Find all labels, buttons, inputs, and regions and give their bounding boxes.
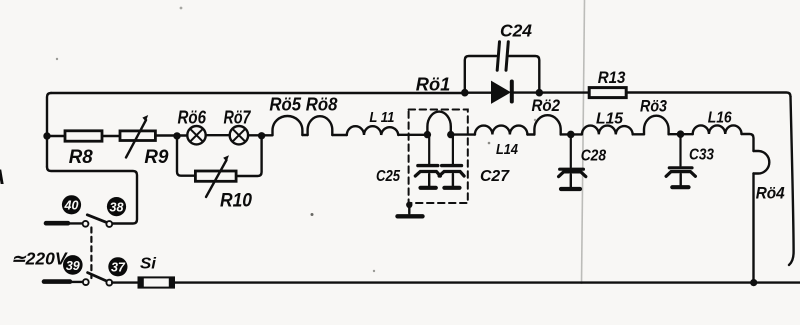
node after R9 [173,132,180,139]
svg-text:C24: C24 [500,21,532,41]
terminal 37 [108,257,127,276]
node after Rö7 [258,132,265,139]
resistor R9 (variable) [120,131,155,141]
capacitor C25 [428,135,430,164]
svg-text:R10: R10 [220,191,252,212]
wire diode to R13 [514,91,589,93]
wire R10 branch right [236,136,262,176]
node C24 right [536,89,544,97]
svg-text:A: A [0,166,5,189]
inductor L16 [693,125,742,134]
svg-text:Rö3: Rö3 [640,98,667,116]
terminal 40 [62,195,81,214]
svg-text:L16: L16 [708,110,732,127]
scan fold line [582,0,585,284]
switch blade bottom (contacts 39-37) [44,279,70,284]
svg-text:C28: C28 [581,148,607,165]
resistor R8 [65,131,102,141]
svg-text:37: 37 [111,261,126,275]
svg-text:Rö7: Rö7 [224,107,252,127]
svg-text:Rö5 Rö8: Rö5 Rö8 [269,95,337,115]
node bump right [447,131,454,138]
fuse Si [139,277,175,287]
wire right vertical with end hook [789,97,794,266]
lamp Rö7 [230,126,248,144]
wire into filter box [398,134,427,136]
resistor R13 [589,88,626,98]
svg-text:Si: Si [140,256,157,273]
svg-text:C27: C27 [480,168,510,185]
scan specks [56,58,58,60]
wire left L-path down to switch [47,167,137,224]
svg-text:C33: C33 [689,147,714,164]
arrow of R10 [206,160,227,197]
resistor R10 (variable) [195,171,236,181]
svg-text:40: 40 [64,199,79,213]
wire [527,133,534,135]
terminal 38 [107,197,126,216]
terminal 39 [63,255,83,275]
node bottom rail [750,279,757,286]
node C24 left [461,89,469,97]
svg-text:L14: L14 [496,142,518,158]
node bump left [424,131,431,138]
wire to L16 [669,133,693,135]
inductor L14 [475,126,528,135]
wire R10 branch left [177,136,195,176]
inductor L15 [582,126,633,135]
svg-text:Rö4: Rö4 [756,185,785,203]
inductor L11 [347,126,399,135]
ground of filter box [406,202,412,208]
svg-text:Rö1: Rö1 [416,75,451,95]
wire lamp to Rö5 [248,134,272,136]
wire switch to fuse [112,281,138,283]
wire top rail left [51,92,463,94]
svg-text:39: 39 [66,259,80,273]
svg-text:38: 38 [110,200,124,214]
heater loop inside box [427,112,450,135]
heater Rö5 [273,116,303,135]
heater Rö2 [534,115,560,134]
wire R9 to lamp [155,134,187,136]
switch blade top (contacts 40-38) [46,221,68,226]
svg-text:R9: R9 [144,147,168,168]
wire R8-R9 [102,135,120,137]
switch linkage (dashed) [90,228,92,279]
diode Rö1 [492,82,511,104]
capacitor C27 [452,135,454,164]
svg-text:Rö2: Rö2 [532,97,561,115]
node C33 [677,130,685,138]
wire Rö4 down to bottom rail [752,174,754,283]
svg-text:R13: R13 [598,69,626,87]
wire top rail corner / left vertical [47,93,51,167]
arrow of R9 [126,120,146,158]
svg-text:L 11: L 11 [369,110,394,126]
node C28 [567,131,575,139]
wire R13 to right corner [626,93,790,97]
wire to L15 [561,133,582,135]
wire box bump to L14 [451,133,475,135]
lamp Rö6 [187,126,205,144]
node top-left junction [43,132,50,139]
filter can (dashed shield box) [409,110,468,204]
svg-text:Rö6: Rö6 [178,107,207,127]
heater Rö4 [754,151,770,174]
heater Rö3 [644,116,669,135]
wire row2 R8 lead [47,135,65,137]
wire [633,133,644,135]
capacitor C28 [570,134,572,167]
svg-text:R8: R8 [69,147,93,168]
wire node to diode [463,91,492,93]
svg-text:C25: C25 [376,168,401,185]
svg-text:≃220V: ≃220V [11,249,68,269]
heater Rö8 [308,116,333,135]
capacitor C33 [679,134,681,166]
svg-text:L15: L15 [596,110,624,127]
wire between lamps [206,134,230,136]
wire to L11 [332,134,347,136]
wire L16 to corner [742,134,754,151]
wire [302,134,307,136]
capacitor C24 plates [497,42,499,71]
bottom rail [175,281,800,283]
capacitor C24 branch loop [465,56,497,93]
